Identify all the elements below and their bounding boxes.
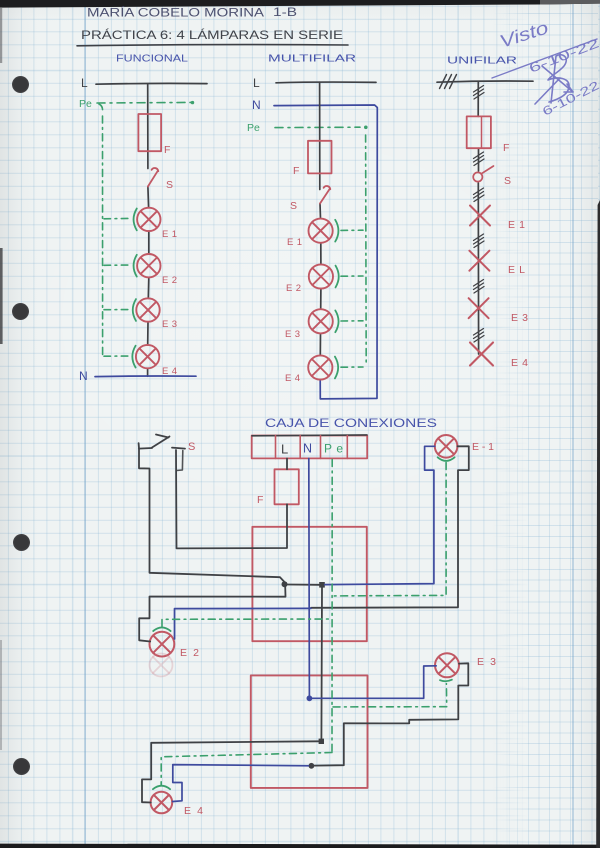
terminal strip outline (252, 436, 368, 459)
hatch marks 6 (unifilar) (474, 329, 485, 343)
PE (green) E2 up and across (162, 619, 331, 627)
svg-text:S: S (290, 200, 297, 212)
svg-text:F: F (293, 165, 299, 177)
lamp E2 (multifilar) (309, 264, 333, 288)
switch right terminal doubled stroke (layout) (177, 451, 183, 471)
header underline (77, 45, 348, 46)
switch S (funcional) (148, 168, 158, 186)
PE arc E1 (funcional) (134, 209, 137, 231)
wire PE vertical dashed (multifilar) (365, 135, 368, 364)
fuse F (multifilar) (308, 141, 332, 174)
wire main vertical (unifilar) (477, 82, 479, 355)
punch holes (12, 76, 29, 93)
wire L line (multifilar) (276, 81, 376, 84)
PE stub E3 (funcional) (104, 309, 131, 311)
photo edges (0, 0, 600, 8)
PE stub E1 (multifilar) (341, 229, 363, 231)
svg-text:Pe: Pe (324, 442, 343, 456)
PE stub E2 (funcional) (104, 264, 131, 266)
svg-text:L: L (81, 76, 88, 90)
svg-text:N: N (79, 369, 88, 383)
lamp E3 (funcional) (136, 298, 159, 321)
svg-text:S: S (504, 175, 511, 187)
lamp E1 (multifilar) (309, 219, 333, 243)
fuse F (unifilar) (467, 116, 491, 148)
wire: lamp E1 right down long (311, 446, 469, 608)
PE arc E3 (multifilar) (335, 310, 338, 332)
fuse F (layout) (275, 469, 299, 504)
svg-text:N: N (303, 442, 312, 456)
svg-text:N: N (252, 98, 261, 112)
wire N (blue) dot A to lamp E1 left (325, 446, 435, 584)
PE arc E3 (funcional) (133, 299, 136, 321)
svg-text:E2: E2 (180, 647, 199, 659)
svg-text:E3: E3 (511, 312, 528, 324)
junction dot A (319, 582, 325, 588)
junction dot B (319, 739, 324, 744)
PE end dot (funcional) (191, 101, 194, 104)
PE arc above lamp E2 (153, 627, 170, 631)
hatch marks group y95 (unifilar) (474, 86, 485, 100)
hatch marks 4 (unifilar) (474, 234, 485, 248)
PE arc E2 (multifilar) (336, 266, 339, 288)
visto underline stroke (492, 39, 597, 78)
conductor-count slashes /// (unifilar) (440, 75, 457, 89)
wire L: fuse down and left to switch right (176, 450, 287, 548)
PE (green) branch to E3 (333, 684, 447, 707)
hatch marks 5 (unifilar) (474, 280, 485, 294)
lamp E4 cross (unifilar) (470, 343, 493, 366)
PE stub E4 (funcional) (104, 355, 130, 357)
wire PE dashed line (multifilar) (275, 126, 360, 128)
PE arc E2 (funcional) (134, 255, 137, 277)
PE (green) E1 drop and across (333, 463, 446, 596)
wire: blob down-left to lamp E2 left (139, 587, 285, 642)
junction blob (282, 581, 288, 587)
terminal strip top edge (dark) (252, 434, 367, 437)
lamp E4 (funcional) (136, 345, 159, 368)
hatch marks below fuse (unifilar) (474, 152, 485, 166)
svg-text:E3: E3 (162, 319, 177, 330)
svg-text:E3: E3 (477, 656, 496, 668)
lamp E4 (multifilar) (308, 355, 332, 379)
svg-text:UNIFILAR: UNIFILAR (447, 55, 518, 67)
junction dot C (307, 695, 313, 701)
svg-text:PRÁCTICA 6: 4 LÁMPARAS EN SERI: PRÁCTICA 6: 4 LÁMPARAS EN SERIE (81, 27, 343, 42)
switch S (layout) (139, 443, 185, 448)
svg-text:F: F (503, 142, 509, 154)
svg-text:FUNCIONAL: FUNCIONAL (116, 53, 188, 65)
wire PE dashed line (funcional) (97, 101, 196, 104)
svg-text:L: L (281, 442, 288, 457)
wire main vertical (funcional) (148, 84, 149, 376)
PE arc E4 (multifilar) (335, 357, 338, 379)
PE stub E2 (multifilar) (341, 275, 363, 277)
wire top feed line (unifilar) (437, 81, 533, 82)
wire L: terminal to fuse (286, 458, 288, 469)
svg-text:E2: E2 (286, 283, 301, 294)
switch lever (layout) (152, 435, 170, 448)
svg-text:S: S (166, 179, 173, 191)
PE (green) across to E4 and drop (161, 753, 332, 786)
svg-text:E2: E2 (162, 275, 177, 286)
wire N (blue) dot C to lamp E3 left (312, 666, 436, 699)
wire (blue): E2 right terminal up and right (175, 608, 312, 639)
svg-text:1-B: 1-B (273, 7, 297, 19)
junction box 2 (251, 675, 368, 788)
PE arc above lamp E4 (153, 786, 170, 790)
switch S (multifilar) (320, 186, 330, 203)
junction box 1 (252, 527, 366, 641)
lamp E2 (layout) (150, 632, 175, 657)
svg-text:F: F (257, 494, 263, 506)
wire N line + right drop + bottom return (multifilar) (274, 105, 377, 399)
lamp E1 (layout) (435, 435, 458, 458)
wire: blob to junction dot A (288, 584, 320, 586)
wire: vertical dot A down to dot B (320, 588, 323, 742)
lamp E2 (funcional) (137, 254, 160, 277)
terminal strip dividers (276, 436, 348, 459)
switch S (unifilar) (473, 166, 493, 182)
svg-text:MARÍA COBELO MORINA: MARÍA COBELO MORINA (87, 7, 264, 20)
wire L: switch left down to blob junction (139, 449, 284, 582)
hatch marks below switch (unifilar) (474, 188, 485, 202)
svg-text:S: S (188, 441, 195, 453)
PE arc E4 (funcional) (132, 346, 135, 368)
ghost erased lamp below E2 (layout) (150, 654, 173, 677)
lamp E1 cross (unifilar) (470, 206, 490, 226)
svg-text:E3: E3 (285, 329, 300, 340)
lamp E1 (funcional) (137, 208, 160, 231)
lamp E3 cross (unifilar) (469, 298, 489, 318)
svg-text:E1: E1 (287, 237, 302, 248)
PE stub E4 (multifilar) (341, 366, 363, 368)
PE arc E1 (multifilar) (335, 220, 338, 242)
PE stub E3 (multifilar) (341, 320, 363, 322)
svg-text:E-1: E-1 (472, 441, 494, 453)
PE trunk (green dashed) from terminal down (331, 460, 333, 753)
svg-text:EL: EL (508, 264, 525, 276)
junction dot D (309, 763, 315, 769)
lamp E4 (layout) (151, 792, 173, 814)
svg-text:E1: E1 (508, 219, 525, 231)
svg-text:E4: E4 (285, 373, 300, 384)
wire main vertical (multifilar) (320, 82, 321, 380)
svg-text:MULTIFILAR: MULTIFILAR (268, 53, 357, 65)
teacher signature scribble (535, 55, 573, 104)
lamp E2 cross (unifilar) (469, 251, 489, 271)
wire N trunk (blue) terminal N down to dot C (308, 458, 311, 698)
svg-text:6-10-22: 6-10-22 (540, 78, 600, 119)
svg-text:Visto: Visto (497, 17, 551, 51)
fuse inner line (unifilar) (481, 116, 483, 148)
svg-text:E4: E4 (184, 805, 203, 817)
lamp E3 (layout) (435, 653, 459, 677)
wire N line (funcional) (95, 375, 196, 378)
PE arc under lamp E3 (440, 680, 452, 682)
fuse F (funcional) (138, 114, 161, 151)
svg-text:Pe: Pe (247, 122, 260, 134)
wire: dot B left to lamp E4 left (142, 741, 319, 802)
svg-text:E1: E1 (162, 229, 177, 240)
wire: lamp E3 right staircase down to dot D (315, 663, 469, 765)
wire L line (funcional) (96, 82, 207, 85)
PE end dot (multifilar) (364, 126, 368, 130)
svg-text:E4: E4 (511, 357, 528, 369)
wire (blue): dot D left to lamp E4 right (173, 765, 309, 802)
svg-text:L: L (253, 76, 260, 90)
svg-text:F: F (164, 144, 170, 156)
wire PE vertical dashed (funcional) (99, 104, 103, 357)
PE stub E1 (funcional) (104, 217, 131, 219)
svg-text:Pe: Pe (79, 98, 92, 110)
lamp E3 (multifilar) (309, 309, 333, 333)
PE arc under lamp E1 (438, 457, 455, 461)
svg-text:CAJA DE CONEXIONES: CAJA DE CONEXIONES (265, 416, 437, 430)
